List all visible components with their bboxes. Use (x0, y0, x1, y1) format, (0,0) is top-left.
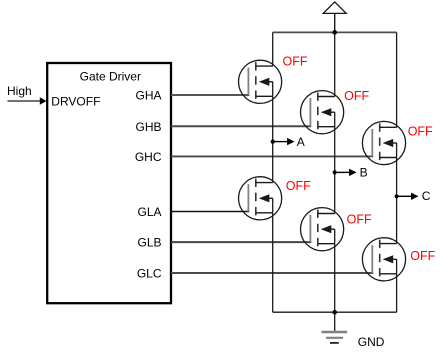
svg-text:GHB: GHB (135, 120, 161, 134)
svg-text:GHC: GHC (135, 150, 162, 164)
svg-text:C: C (422, 189, 431, 203)
svg-text:OFF: OFF (283, 55, 308, 69)
svg-text:GND: GND (358, 335, 385, 349)
svg-text:GHA: GHA (135, 89, 161, 103)
svg-text:B: B (360, 166, 368, 180)
svg-text:OFF: OFF (344, 89, 369, 103)
svg-text:GLB: GLB (137, 236, 161, 250)
svg-text:GLC: GLC (137, 267, 162, 281)
svg-text:OFF: OFF (408, 124, 433, 138)
svg-text:GLA: GLA (137, 205, 161, 219)
svg-text:OFF: OFF (347, 213, 372, 227)
svg-text:OFF: OFF (286, 179, 311, 193)
svg-text:High: High (7, 84, 32, 98)
svg-text:DRVOFF: DRVOFF (51, 94, 100, 108)
svg-text:OFF: OFF (410, 249, 435, 263)
svg-text:A: A (297, 135, 305, 149)
svg-text:Gate Driver: Gate Driver (80, 70, 141, 84)
